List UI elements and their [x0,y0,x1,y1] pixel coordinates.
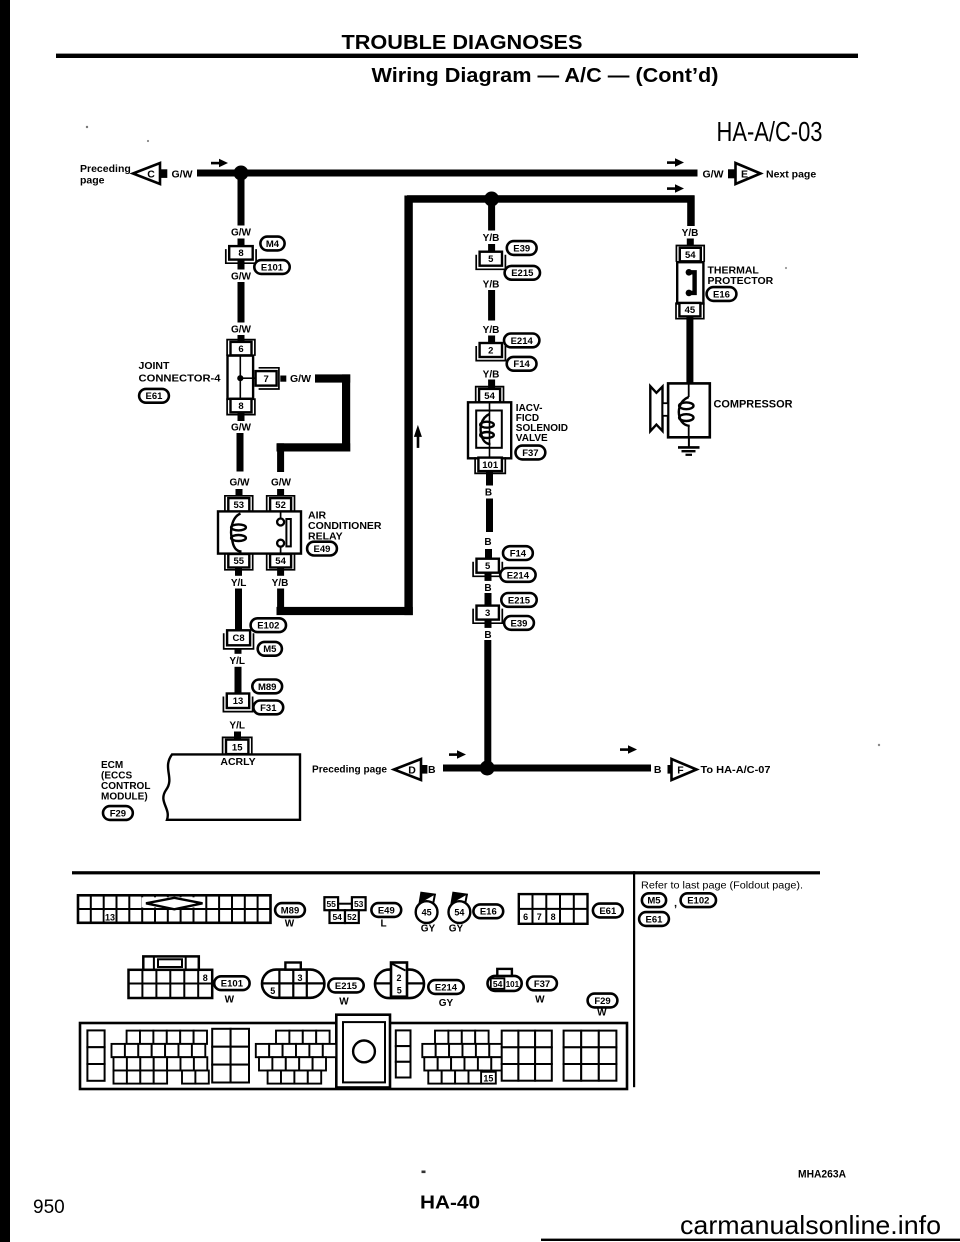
next page label [766,169,816,181]
scan speck [86,126,880,746]
joint connector pin 8 [227,398,255,414]
svg-text:101: 101 [482,460,499,471]
connector oval F29 bottom [588,994,618,1019]
svg-text:CONNECTOR-4: CONNECTOR-4 [139,373,221,385]
wire label G/W [230,323,253,336]
svg-text:Wiring Diagram — A/C — (Cont’d: Wiring Diagram — A/C — (Cont’d) [372,65,719,87]
IACV pin 101 [475,457,505,473]
connector oval E16 [707,287,737,301]
wire stub below connector 3 [485,621,492,630]
footer page number 950 [33,1197,65,1218]
wire label B [483,535,493,548]
connector oval E101 bottom [214,976,249,1005]
connector 3 lower (E215/E39) [473,606,502,624]
flow arrow bottom bus right [620,745,637,754]
IACV pin 54 [476,387,504,403]
svg-text:E101: E101 [221,979,244,990]
wire label G/W below joint connector [230,421,253,434]
svg-text:7: 7 [537,912,542,922]
round connector 45 [416,893,438,935]
wire stub to pin 53 [236,489,243,495]
wire stub below C8 [235,649,242,656]
flow arrow on top bus left [211,159,228,168]
svg-text:E61: E61 [146,391,164,402]
svg-text:F31: F31 [260,703,277,714]
svg-text:B: B [485,488,492,499]
svg-text:F: F [677,764,684,776]
wire label G/W above pin 52 [270,476,293,489]
wire G/W down to relay pin 53 [237,433,244,472]
connector oval E39 lower [504,616,534,630]
svg-text:45: 45 [422,908,432,918]
svg-text:COMPRESSOR: COMPRESSOR [714,399,793,411]
wire Y/B segment [488,290,495,321]
preceding page label bottom [312,764,387,776]
wire Y/B right bus corner down [687,196,695,232]
relay coil [231,514,246,552]
footer bottom right rule [541,1239,960,1241]
wire stub [485,573,492,582]
connector oval F14 lower [503,546,533,560]
wire Y/B from junction down [488,203,495,231]
connector grid 55/53/54/52 [324,897,365,923]
connector C8 (E102/M5) [224,630,254,649]
svg-text:Y/L: Y/L [229,720,245,731]
terminal square after pin 7 [280,376,286,382]
node junction dot bottom bus [480,761,495,776]
svg-text:M89: M89 [281,905,299,916]
connector 2 (E214/F14) [476,343,505,361]
comma separator [674,898,677,910]
ground symbol below compressor [678,437,700,455]
node junction dot left bus [234,166,249,181]
IACV-FICD text label [516,403,568,444]
connector oval E49 bottom [371,903,401,929]
connector oval M5 [258,642,282,656]
wire stub above lower connector 5 [485,549,492,559]
wire B down to bottom bus [484,640,491,764]
connector oval E61 refer [639,912,669,926]
svg-text:55: 55 [234,556,245,567]
diagram sheet code HA-A/C-03 [717,116,823,147]
svg-text:page: page [80,175,105,187]
wire label Y/B [480,367,503,380]
svg-text:M4: M4 [266,239,280,250]
svg-text:E215: E215 [511,268,534,279]
svg-text:C8: C8 [233,633,245,644]
compressor text label [714,399,793,411]
connector oval E214 lower [500,568,535,582]
flow arrow second bus right [667,184,684,193]
svg-text:E101: E101 [261,262,284,273]
svg-text:6: 6 [238,344,243,355]
svg-text:M5: M5 [263,644,277,655]
page connector arrow D [394,759,427,780]
wire stub above connector 8 [238,239,245,247]
wire stub [485,593,492,606]
svg-text:G/W: G/W [230,478,251,489]
preceding page label [80,163,131,187]
svg-text:54: 54 [493,979,503,989]
svg-text:13: 13 [105,913,115,923]
header subtitle Wiring Diagram - A/C - (Cont'd) [372,65,719,87]
svg-text:8: 8 [203,973,208,983]
svg-text:VALVE: VALVE [516,433,548,444]
air conditioner relay label [308,510,382,543]
wire label G/W at pin 7 [290,373,311,385]
relay pin 53 [225,496,253,512]
svg-text:F29: F29 [110,808,126,819]
wire stub above IACV [488,380,495,391]
ECM text label [101,760,150,803]
svg-text:W: W [339,997,349,1008]
wire label G/W left of bus [172,169,193,181]
connector oval M4 [260,237,284,251]
svg-text:Y/L: Y/L [229,656,245,667]
thermal protector switch element [686,269,695,296]
joint connector-4 body [228,356,256,399]
svg-text:E39: E39 [513,243,530,254]
svg-text:6: 6 [523,912,528,922]
svg-text:JOINT: JOINT [139,360,171,372]
round connector 54 [449,893,471,935]
connector oval E214 bottom [428,980,463,1009]
connector oval E215 [505,266,540,280]
refer to last page note [641,881,803,892]
wire Y/L down to C8 [235,589,242,631]
svg-text:CONTROL: CONTROL [101,781,150,792]
wire G/W from junction down [238,176,245,227]
svg-text:8: 8 [238,248,243,259]
wire label G/W above pin 53 [228,476,251,489]
svg-text:54: 54 [685,250,696,261]
page connector arrow F [668,759,697,780]
svg-text:E16: E16 [480,907,497,918]
wire stub below pin 55 [235,568,242,577]
wire stub to pin 52 [277,489,284,495]
svg-text:7: 7 [263,374,268,385]
connector 13 (M89/F31) [223,694,252,712]
wire label Y/L [227,576,250,589]
svg-text:B: B [484,537,491,548]
thermal protector pin 45 [676,302,704,318]
svg-text:,: , [674,898,677,910]
svg-text:W: W [285,919,295,930]
svg-text:E214: E214 [511,336,534,347]
relay pin 52 [267,496,295,512]
svg-text:2: 2 [396,973,401,983]
wire G/W corner horizontal [277,443,351,451]
wire Y/B under relay horizontal [277,607,413,615]
svg-text:F29: F29 [594,996,610,1007]
svg-text:B: B [428,764,436,776]
connector grid 6/7/8 [519,894,588,924]
wire Y/B second bus [407,195,695,203]
connector oval E102 refer [681,893,716,907]
connector oval F14 [507,357,537,371]
svg-text:15: 15 [232,742,243,753]
wire stub above connector 15 [234,732,241,740]
svg-text:G/W: G/W [231,423,252,434]
connector 5 (E39/E215) [476,252,505,270]
svg-text:54: 54 [484,391,495,402]
svg-text:(ECCS: (ECCS [101,771,132,782]
wire G/W from pin 7 rightwards [315,374,350,382]
bottom section separator line [633,871,635,1087]
svg-text:E214: E214 [435,982,458,993]
connector 5 lower (F14/E214) [473,559,502,577]
svg-text:W: W [535,995,545,1006]
wire Y/L down to 13 [235,667,242,694]
page connector arrow E [728,163,761,184]
svg-text:G/W: G/W [703,169,724,181]
svg-text:B: B [654,764,662,776]
connector oval E16 bottom [473,904,503,918]
footer page code HA-40 [420,1192,480,1213]
svg-text:G/W: G/W [172,169,193,181]
svg-text:Y/B: Y/B [682,228,699,239]
svg-text:G/W: G/W [290,373,311,385]
connector grid E101 (8) [129,956,213,998]
connector oval E102 [251,618,286,632]
svg-text:PROTECTOR: PROTECTOR [708,275,774,287]
relay pin 55 [225,554,253,570]
svg-text:TROUBLE DIAGNOSES: TROUBLE DIAGNOSES [342,32,583,54]
wire B below IACV [486,471,493,532]
connector oval F37 [516,446,546,460]
ACRLY pin label [220,756,255,768]
wire label G/W right of bus [703,169,724,181]
svg-text:Y/B: Y/B [483,279,500,290]
svg-text:ACRLY: ACRLY [220,756,255,768]
connector oval E101 [254,260,289,274]
wire G/W corner vertical [342,374,350,451]
svg-text:3: 3 [297,973,302,983]
wire label G/W [230,226,253,239]
svg-text:E61: E61 [599,906,617,917]
svg-text:GY: GY [421,924,436,935]
svg-text:HA-40: HA-40 [420,1192,480,1213]
joint connector text label [139,360,221,385]
footer figure code MHA263A [798,1169,846,1181]
flow arrow bottom bus left [449,750,466,759]
svg-text:G/W: G/W [231,325,252,336]
joint connector pin 6 [227,340,255,356]
connector oval F29 [103,806,133,820]
connector 8 (M4/E101) [226,246,256,263]
footer tiny dash [422,1171,426,1174]
svg-text:Y/L: Y/L [231,578,247,589]
IACV solenoid coil [480,414,494,444]
joint connector pin 7 [256,368,279,389]
svg-text:5: 5 [397,985,402,995]
svg-text:E39: E39 [511,618,528,629]
svg-text:F14: F14 [510,549,527,560]
connector grid E214 (2/5) [375,963,424,999]
compressor coil [679,383,694,437]
compressor box [668,383,710,437]
bottom section top rule [72,871,820,874]
wire stub above thermal protector [687,239,694,247]
wire label B bottom right [654,764,662,776]
svg-text:54: 54 [332,912,342,922]
wire stub below joint connector [238,413,245,421]
to HA-A/C-07 label [701,764,771,776]
connector oval E49 [307,542,337,556]
svg-text:E215: E215 [335,981,358,992]
svg-text:G/W: G/W [231,228,252,239]
svg-text:E49: E49 [314,544,331,555]
wire label B bottom left [428,764,436,776]
wire stub above joint connector [238,335,245,342]
svg-text:E61: E61 [646,914,664,925]
connector oval F37 bottom [527,977,557,1006]
connector oval E215 bottom [328,979,363,1008]
wire G/W top bus [197,170,698,177]
wire stub above connector 5 [488,244,495,252]
svg-text:F37: F37 [522,448,538,459]
connector oval E61 [139,389,169,403]
svg-text:101: 101 [506,980,520,989]
svg-text:M89: M89 [258,682,276,693]
svg-text:15: 15 [483,1073,493,1083]
ECM strip connector (15) [80,1015,627,1089]
svg-text:E49: E49 [378,905,395,916]
wire label Y/B [679,226,702,239]
compressor clutch pulley symbol [650,386,668,431]
svg-text:13: 13 [233,696,244,707]
wire Y/B from relay pin 54 down [269,568,292,612]
wire G/W down to relay pin 52 [277,443,284,472]
flow arrow top bus right [667,158,684,167]
svg-text:55: 55 [326,899,336,909]
connector oval F31 [253,701,283,715]
svg-text:E102: E102 [687,896,709,907]
svg-text:Refer to last page (Foldout pa: Refer to last page (Foldout page). [641,881,803,892]
wire label Y/L [226,654,249,667]
connector grid E215 (3/5) [262,963,324,998]
svg-text:G/W: G/W [231,272,252,283]
connector oval M89 [252,680,282,694]
connector grid 54/101 [488,969,522,991]
svg-text:Y/B: Y/B [483,325,500,336]
svg-text:Next page: Next page [766,169,816,181]
air conditioner relay box [218,511,301,553]
svg-text:HA-A/C-03: HA-A/C-03 [717,116,823,147]
wire to compressor [686,316,693,384]
svg-text:Y/B: Y/B [483,233,500,244]
svg-text:C: C [147,168,155,180]
svg-text:Y/B: Y/B [272,578,289,589]
connector oval E61 bottom [593,904,623,918]
svg-text:M5: M5 [647,896,661,907]
svg-text:GY: GY [439,998,454,1009]
wire Y/B vertical riser [404,196,412,616]
svg-text:E16: E16 [713,289,730,300]
wire B bottom bus [443,765,651,772]
svg-text:E215: E215 [508,595,531,606]
svg-text:Y/B: Y/B [483,369,500,380]
svg-text:8: 8 [551,912,556,922]
svg-text:MHA263A: MHA263A [798,1169,846,1181]
wire label B [483,486,493,499]
svg-text:W: W [225,995,235,1006]
svg-text:D: D [408,764,416,776]
wire label G/W [230,270,253,283]
ECM (ECCS control module) box [163,754,300,819]
header title TROUBLE DIAGNOSES [342,32,583,54]
svg-text:5: 5 [488,254,494,265]
svg-text:W: W [597,1008,607,1019]
svg-text:8: 8 [238,401,243,412]
wire label B [483,628,493,641]
svg-text:ECM: ECM [101,760,123,771]
wire stub above connector 2 [488,336,495,343]
wire stub below connector 8 [238,260,245,271]
svg-text:Preceding page: Preceding page [312,764,387,776]
relay contact [277,511,291,553]
svg-text:45: 45 [685,305,696,316]
svg-text:B: B [484,630,491,641]
svg-text:54: 54 [454,908,464,918]
svg-text:5: 5 [270,986,275,996]
svg-text:53: 53 [234,500,245,511]
svg-text:53: 53 [354,899,364,909]
thermal protector body [677,262,703,303]
watermark carmanualsonline.info [680,1210,941,1240]
wire label Y/B [480,323,503,336]
svg-text:52: 52 [275,500,286,511]
wire label Y/B [480,277,503,290]
wire label Y/B [480,231,503,244]
svg-text:5: 5 [485,561,491,572]
left page edge black bar [0,0,10,1242]
svg-text:F37: F37 [534,979,550,990]
svg-text:52: 52 [347,912,357,922]
IACV-FICD solenoid valve body [468,402,511,458]
svg-text:950: 950 [33,1197,65,1218]
connector 15 at ECM [223,737,252,754]
svg-text:L: L [380,919,386,930]
connector oval M5 refer [642,893,666,907]
page connector arrow C [133,163,167,184]
header rule [56,54,858,58]
svg-text:G/W: G/W [271,478,292,489]
svg-text:E: E [741,168,748,180]
relay pin 54 [267,554,295,570]
svg-text:GY: GY [449,924,464,935]
connector oval M89 bottom [275,903,305,929]
svg-text:B: B [484,583,491,594]
svg-text:To HA-A/C-07: To HA-A/C-07 [701,764,771,776]
flow arrow up on riser [414,425,422,448]
svg-text:Preceding: Preceding [80,163,131,175]
connector oval E39 [507,241,537,255]
wire label Y/L [226,718,249,731]
svg-text:carmanualsonline.info: carmanualsonline.info [680,1210,941,1240]
wire G/W down to joint connector [238,282,245,323]
connector oval E215 lower [501,593,536,607]
connector oval E214 [504,334,539,348]
svg-text:E102: E102 [257,621,279,632]
svg-text:54: 54 [275,556,286,567]
node junction dot second bus [484,192,499,207]
svg-text:E214: E214 [507,570,530,581]
svg-text:F14: F14 [513,359,530,370]
svg-text:MODULE): MODULE) [101,792,148,803]
thermal protector pin 54 [676,246,704,262]
wire label B [483,581,493,594]
